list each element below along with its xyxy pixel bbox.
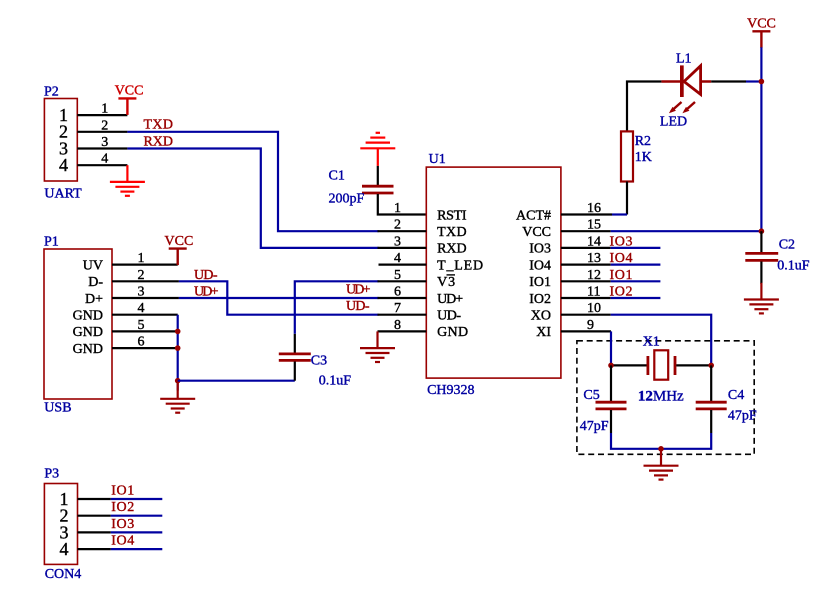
svg-text:RXD: RXD (437, 242, 467, 257)
wire IO3 net at P3 (111, 531, 163, 533)
wire VCC rail LED junction down to pin15 junction (760, 82, 762, 232)
svg-text:VCC: VCC (747, 17, 776, 32)
wire IO2 net (611, 297, 661, 299)
wire LED anode to VCC rail (711, 80, 761, 82)
wire U1 pin 11 stub (561, 297, 611, 299)
junction dot LED / VCC rail (759, 79, 765, 85)
svg-text:200pF: 200pF (329, 192, 365, 207)
svg-text:P2: P2 (44, 85, 59, 100)
dashed box around crystal circuit (577, 341, 754, 455)
svg-text:4: 4 (138, 301, 145, 316)
wire P3 pin 2 stub (78, 515, 111, 517)
svg-text:CH9328: CH9328 (427, 383, 474, 398)
wire LED cathode to R2 (627, 82, 661, 132)
svg-text:3: 3 (138, 285, 145, 300)
wire VCC rail down to LED junction (760, 47, 762, 81)
ground at P2 pin 4 (110, 165, 145, 196)
ground at P1 (160, 382, 195, 413)
junction dot pin15 / C2 (759, 228, 765, 234)
wire U1 pin 15 stub (561, 230, 611, 232)
svg-text:RXD: RXD (144, 134, 174, 149)
svg-text:C1: C1 (329, 169, 345, 184)
wire P2 pin 3 stub (77, 135, 127, 150)
svg-text:P3: P3 (44, 467, 59, 482)
resistor R2 (621, 131, 652, 181)
wire UD+ net P1 pin 3 to U1 pin 6 (179, 297, 379, 299)
wire IO1 net at P3 (111, 498, 163, 500)
power VCC at P1 (165, 234, 194, 265)
svg-text:RSTI: RSTI (437, 208, 467, 223)
svg-text:47pF: 47pF (728, 409, 757, 424)
wire P2 pin 1 stub (77, 102, 127, 117)
svg-text:1K: 1K (635, 150, 652, 165)
connector P2 (UART header) (44, 85, 82, 202)
ground below crystal (644, 449, 679, 480)
wire P1 pin 5 stub (112, 318, 178, 333)
svg-text:2: 2 (101, 118, 108, 133)
svg-text:IO2: IO2 (111, 500, 134, 515)
svg-text:GND: GND (73, 342, 103, 357)
wire IO1 net (611, 280, 661, 282)
wire P2 pin 2 stub (77, 118, 127, 133)
connector P1 (USB) (44, 235, 112, 416)
ground at U1 pin 8 (360, 331, 395, 362)
wire P1 ground rail vertical (177, 315, 179, 391)
wire U1 pin 9 stub (561, 330, 611, 332)
wire U1 pin 8 GND stub (378, 330, 427, 332)
wire P1 pin 3 stub (112, 285, 179, 300)
svg-text:47pF: 47pF (580, 419, 609, 434)
wire VCC net U1 pin 15 to rail (611, 230, 762, 232)
wire TXD net P2 to U1 pin 2 (127, 132, 378, 231)
svg-text:GND: GND (73, 309, 103, 324)
capacitor C3 (279, 334, 351, 389)
U1 right pin names (516, 208, 551, 340)
svg-text:X1: X1 (643, 335, 660, 350)
svg-text:1: 1 (138, 251, 145, 266)
LED arrow 1 (669, 102, 682, 113)
wire U1 pin 7 stub (378, 314, 427, 316)
svg-text:UD-: UD- (346, 299, 370, 314)
svg-text:L1: L1 (676, 52, 692, 67)
svg-text:6: 6 (138, 335, 145, 350)
svg-text:VCC: VCC (522, 225, 551, 240)
svg-text:IO4: IO4 (529, 258, 551, 273)
svg-text:1: 1 (101, 102, 108, 117)
power VCC at P2 (115, 84, 144, 115)
wire V3 net U1 pin 5 to C3 (295, 281, 379, 334)
junction dot bottom rail (658, 446, 664, 452)
power VCC top right (747, 17, 776, 48)
U1 left pin numbers (394, 201, 401, 333)
IC U1 CH9328 body (426, 152, 561, 398)
wire U1 pin 13 stub (561, 264, 611, 266)
svg-text:D-: D- (88, 275, 103, 290)
junction dot crystal left node (608, 363, 614, 369)
capacitor C1 (329, 166, 394, 207)
wire UD- net P1 pin 2 to U1 pin 7 (179, 281, 379, 314)
svg-text:2: 2 (138, 268, 145, 283)
capacitor C5 (580, 365, 627, 434)
svg-text:TXD: TXD (437, 225, 467, 240)
svg-text:GND: GND (437, 325, 468, 340)
overbar on V3 pin name (447, 274, 456, 276)
crystal X1 (611, 335, 711, 405)
wire P2 pin 4 stub (77, 152, 127, 167)
svg-text:TXD: TXD (144, 118, 174, 133)
svg-text:C2: C2 (779, 238, 795, 253)
svg-text:1: 1 (394, 201, 401, 216)
connector P3 (CON4) (44, 467, 81, 583)
svg-text:IO1: IO1 (529, 275, 551, 290)
ground (inverted) above C1 (360, 133, 395, 166)
wire P3 pin 4 stub (78, 548, 111, 550)
svg-text:VCC: VCC (165, 234, 194, 249)
svg-text:UD+: UD+ (437, 292, 463, 307)
wire P1 pin 4 stub (112, 301, 178, 316)
svg-text:USB: USB (44, 401, 71, 416)
wire U1 pin 14 stub (561, 247, 611, 249)
svg-text:IO3: IO3 (111, 517, 134, 532)
svg-text:T_LED: T_LED (437, 258, 483, 273)
svg-text:IO2: IO2 (529, 292, 551, 307)
svg-text:3: 3 (101, 135, 108, 150)
wire U1 pin 16 stub (561, 213, 612, 215)
capacitor C2 (745, 231, 810, 284)
U1 left pin names (437, 208, 483, 340)
svg-text:IO4: IO4 (111, 534, 134, 549)
svg-text:P1: P1 (44, 235, 59, 250)
svg-text:UV: UV (83, 258, 103, 273)
svg-text:ACT#: ACT# (516, 208, 551, 223)
wire U1 pin 2 stub (378, 230, 427, 232)
capacitor C4 (696, 365, 757, 433)
wire XI net U1 pin 9 to crystal left node (610, 331, 612, 365)
wire IO3 net (611, 247, 661, 249)
svg-text:4: 4 (60, 539, 69, 559)
wire U1 pin 10 stub (561, 314, 611, 316)
svg-text:0.1uF: 0.1uF (319, 373, 352, 388)
svg-text:C4: C4 (728, 388, 744, 403)
wire C1 to U1 pin 1 (378, 194, 427, 215)
U1 right pin numbers (587, 201, 601, 333)
wire P3 pin 1 stub (78, 498, 111, 500)
wire R2 bottom to U1 pin 16 (612, 182, 627, 215)
svg-text:0.1uF: 0.1uF (777, 259, 810, 274)
svg-text:VCC: VCC (115, 84, 144, 99)
wire RXD net P2 to U1 pin 3 (127, 149, 378, 248)
svg-text:UD+: UD+ (346, 283, 371, 298)
svg-text:U1: U1 (429, 152, 446, 167)
svg-text:GND: GND (73, 325, 103, 340)
svg-text:IO1: IO1 (111, 484, 134, 499)
svg-text:4: 4 (59, 155, 68, 175)
ground below C2 (744, 283, 779, 314)
svg-text:D+: D+ (85, 292, 103, 307)
svg-text:C5: C5 (583, 388, 599, 403)
svg-text:UD-: UD- (437, 309, 461, 324)
wire U1 pin 3 stub (378, 247, 427, 249)
svg-text:XO: XO (531, 309, 551, 324)
svg-text:V3: V3 (437, 275, 455, 290)
svg-text:CON4: CON4 (45, 567, 82, 582)
wire IO2 net at P3 (111, 515, 163, 517)
wire P3 pin 3 stub (78, 531, 111, 533)
svg-text:12MHz: 12MHz (638, 389, 684, 405)
LED L1 (660, 52, 711, 130)
LED arrow 2 (682, 102, 695, 113)
svg-text:XI: XI (536, 325, 551, 340)
wire U1 pin 6 stub (378, 297, 427, 299)
junction dot C3 rail (175, 378, 181, 384)
wire P1 pin 6 stub (112, 335, 178, 350)
wire U1 pin 12 stub (561, 280, 611, 282)
junction dot P1 pin 5 (175, 329, 181, 335)
wire U1 pin 4 stub (T_LED no connect) (379, 264, 427, 266)
wire XO net U1 pin 10 to crystal right node (611, 315, 712, 366)
svg-text:R2: R2 (635, 134, 651, 149)
svg-text:5: 5 (138, 318, 145, 333)
wire U1 pin 5 stub (378, 280, 427, 282)
junction dot P1 pin 6 (175, 345, 181, 351)
wire IO4 net at P3 (111, 548, 163, 550)
svg-text:IO3: IO3 (529, 242, 551, 257)
junction dot crystal right node (708, 363, 714, 369)
wire P1 pin 2 stub (112, 268, 179, 283)
svg-text:LED: LED (660, 115, 687, 130)
wire IO4 net (611, 264, 661, 266)
wire P1 pin 1 stub (112, 251, 178, 266)
svg-text:UART: UART (44, 187, 82, 202)
svg-text:C3: C3 (311, 354, 327, 369)
svg-text:4: 4 (101, 152, 108, 167)
wire C3 bottom to ground rail (178, 380, 295, 382)
wire crystal bottom rail (611, 433, 711, 449)
